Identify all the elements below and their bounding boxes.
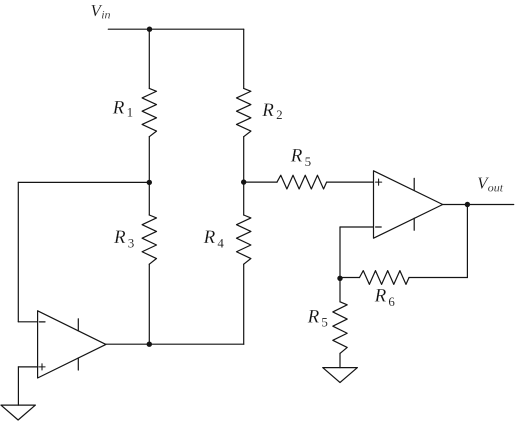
svg-text:R: R (203, 227, 216, 248)
svg-text:out: out (488, 180, 504, 194)
svg-text:R: R (113, 227, 126, 248)
svg-text:5: 5 (305, 154, 312, 169)
wire top rail Vin (108, 28, 243, 30)
svg-text:3: 3 (128, 236, 135, 251)
wire op-amp U2 output (443, 204, 514, 206)
wire column1 upper (148, 29, 150, 88)
resistor R2 (237, 88, 251, 136)
svg-text:R: R (290, 146, 303, 167)
op-amp U2 minus sign (376, 226, 382, 228)
resistor R3 (142, 215, 156, 264)
wire column2 upper (243, 29, 245, 88)
wire op-amp U2 inverting stub (340, 226, 374, 228)
node Vout junction (465, 202, 470, 207)
svg-text:R: R (112, 97, 125, 118)
op-amp U2 power tick bottom (413, 218, 415, 230)
resistor R5 horizontal (277, 175, 327, 189)
svg-text:6: 6 (388, 294, 395, 309)
op-amp U1 plus sign (39, 364, 45, 370)
resistor R5 vertical (333, 302, 347, 354)
op-amp U1 (38, 311, 106, 378)
svg-text:in: in (101, 7, 110, 21)
wire feedback right vertical (466, 205, 468, 278)
wire column2 lower (243, 264, 245, 344)
op-amp U2 (374, 171, 443, 238)
node output U1 junction (147, 342, 152, 347)
wire node to R5 (244, 181, 277, 183)
op-amp U1 power tick bottom (77, 358, 79, 370)
wire feedback left horizontal (18, 181, 149, 183)
wire R5 to op-amp U2 (327, 181, 374, 183)
op-amp U1 minus sign (39, 321, 45, 323)
ground G1 (1, 405, 36, 420)
wire inverting down to node (339, 227, 341, 302)
wire ground lead U1 (17, 367, 19, 405)
op-amp U1 power tick top (77, 319, 79, 331)
wire column1 lower (148, 264, 150, 344)
svg-text:2: 2 (276, 107, 283, 122)
wire column2 mid (243, 137, 245, 215)
wire R5 vertical to ground (339, 353, 341, 367)
node middle-left junction (147, 180, 152, 185)
svg-text:R: R (374, 286, 387, 307)
svg-text:4: 4 (217, 236, 224, 251)
svg-text:R: R (261, 100, 274, 121)
resistor R6 (360, 271, 410, 285)
resistor R4 (237, 215, 251, 264)
op-amp U2 power tick top (413, 178, 415, 190)
svg-text:1: 1 (127, 104, 134, 119)
wire op-amp U1 non-inverting input stub (18, 366, 37, 368)
op-amp U2 plus sign (376, 179, 382, 185)
wire feedback left vertical (17, 182, 19, 321)
resistor R1 (142, 88, 156, 136)
node feedback junction (337, 276, 342, 281)
wire column1 mid (148, 137, 150, 215)
wire feedback bottom horizontal (409, 277, 467, 279)
node top junction (147, 27, 152, 32)
svg-text:R: R (307, 306, 320, 327)
ground G2 (323, 368, 358, 383)
wire op-amp U1 inverting input stub (18, 321, 37, 323)
wire R6 to node (340, 277, 360, 279)
node middle-right junction (241, 179, 246, 184)
svg-text:5: 5 (321, 315, 328, 330)
wire op-amp U1 output (106, 343, 244, 345)
